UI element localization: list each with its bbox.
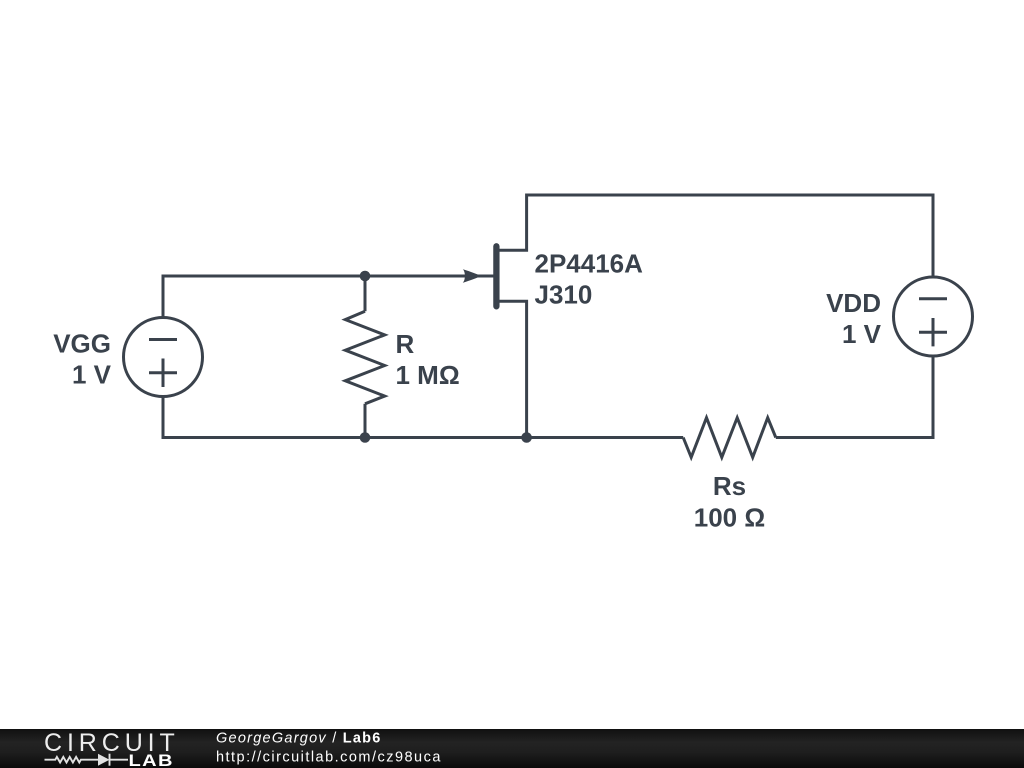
svg-text:2P4416A: 2P4416A xyxy=(535,248,644,278)
svg-text:1 MΩ: 1 MΩ xyxy=(396,360,460,390)
svg-text:VGG: VGG xyxy=(53,329,111,359)
svg-text:Rs: Rs xyxy=(713,471,746,501)
svg-text:VDD: VDD xyxy=(826,288,881,318)
svg-text:J310: J310 xyxy=(535,280,593,310)
svg-text:LAB: LAB xyxy=(129,750,174,768)
svg-text:1 V: 1 V xyxy=(842,319,882,349)
svg-text:100 Ω: 100 Ω xyxy=(694,502,765,532)
svg-text:1 V: 1 V xyxy=(72,360,112,390)
svg-text:http://circuitlab.com/cz98uca: http://circuitlab.com/cz98uca xyxy=(216,750,442,766)
svg-text:R: R xyxy=(396,329,415,359)
svg-text:GeorgeGargov / Lab6: GeorgeGargov / Lab6 xyxy=(216,731,382,747)
